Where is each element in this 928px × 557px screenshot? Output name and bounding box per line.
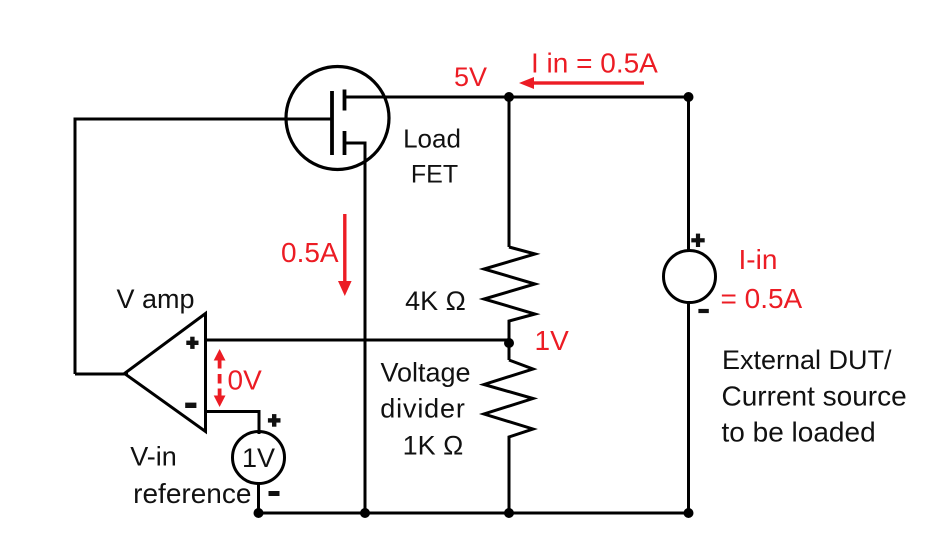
voltage source V1 minus terminal label (269, 491, 280, 496)
svg-text:Voltage: Voltage (380, 358, 470, 388)
op-amp - input label (185, 403, 196, 408)
node junction top divider (504, 92, 514, 102)
svg-text:Current source: Current source (722, 381, 907, 412)
arrow I in current direction (530, 81, 644, 84)
svg-text:= 0.5A: = 0.5A (721, 283, 803, 314)
wire right branch upper (687, 97, 690, 252)
current source I1 external (664, 251, 716, 303)
wire left feedback vertical (74, 118, 77, 375)
op-amp + input label (186, 337, 198, 349)
current source I1 plus terminal label (691, 234, 704, 247)
resistor R1 4K (484, 247, 535, 360)
wire op-amp noninverting input to node 1V (206, 339, 510, 342)
node junction bottom reference (254, 508, 264, 518)
wire right branch lower (687, 303, 690, 514)
wire gate lead (75, 118, 333, 121)
svg-text:I in = 0.5A: I in = 0.5A (531, 48, 658, 79)
current source I1 minus terminal label (698, 309, 708, 313)
svg-text:reference: reference (133, 478, 251, 509)
wire op-amp inverting input (206, 412, 260, 435)
svg-text:External DUT/: External DUT/ (722, 345, 892, 375)
svg-text:0.5A: 0.5A (281, 237, 339, 268)
svg-text:4K Ω: 4K Ω (405, 286, 466, 316)
svg-text:Load: Load (403, 124, 461, 154)
svg-text:V amp: V amp (116, 284, 194, 314)
wire divider branch upper (508, 97, 511, 247)
node junction top right (684, 92, 694, 102)
node junction bottom FET source (360, 508, 370, 518)
svg-text:5V: 5V (454, 62, 487, 92)
resistor R2 1K (484, 360, 533, 513)
svg-text:FET: FET (411, 161, 458, 189)
node junction bottom divider (504, 508, 514, 518)
svg-text:to be loaded: to be loaded (722, 417, 876, 448)
voltage source V1 V-in reference 1V (233, 432, 285, 484)
arrow 0.5A current direction (343, 214, 346, 284)
svg-text:1K Ω: 1K Ω (403, 431, 464, 461)
transistor Q1 Load FET (286, 67, 390, 170)
svg-text:I-in: I-in (739, 244, 778, 275)
svg-text:1V: 1V (242, 443, 275, 473)
arrow 0V dashed double-head (214, 349, 226, 407)
wire V-in reference to ground rail (257, 482, 260, 513)
wire FET source lead (345, 143, 365, 513)
wire top rail 5V (345, 96, 689, 99)
wire op-amp output lead (75, 373, 128, 376)
node junction bottom right (684, 508, 694, 518)
svg-text:1V: 1V (535, 325, 570, 356)
svg-text:divider: divider (380, 394, 466, 424)
wire bottom rail (259, 512, 689, 515)
op-amp U1 V amp (125, 314, 206, 432)
svg-text:0V: 0V (228, 365, 263, 396)
svg-text:V-in: V-in (130, 442, 177, 472)
voltage source V1 plus terminal label (268, 414, 281, 427)
node 1V junction (504, 338, 514, 348)
